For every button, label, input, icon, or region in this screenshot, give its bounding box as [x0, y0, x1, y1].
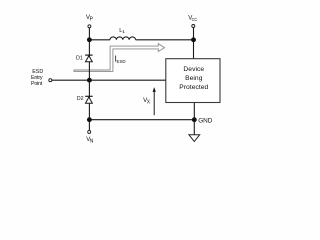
label V_X [143, 97, 151, 106]
label V_N [86, 136, 94, 145]
inductor L1 [110, 37, 136, 40]
wire V_P stub [88, 28, 90, 40]
terminal V_CC [192, 25, 195, 28]
svg-text:D1: D1 [76, 55, 83, 61]
svg-text:Device: Device [183, 66, 204, 73]
wire V_N stub [88, 120, 90, 131]
svg-text:Being: Being [185, 75, 203, 82]
wire bottom V_N segment [89, 119, 194, 121]
wire V_CC stub [193, 28, 195, 40]
junction node at V_P / top wire [87, 37, 92, 42]
box label Device Being Protected [179, 66, 208, 91]
diode D2 [85, 96, 92, 103]
label I_ESD [115, 54, 127, 64]
svg-text:N: N [90, 139, 94, 145]
terminal ESD entry point [49, 79, 52, 82]
svg-text:Protected: Protected [179, 84, 208, 91]
wire from top node into box top [193, 40, 195, 59]
svg-text:1: 1 [122, 29, 125, 34]
junction node at V_N / D2 [87, 117, 92, 122]
ESD current hollow arrow [74, 44, 165, 72]
wire left rail through D1 [88, 40, 90, 80]
label V_P [86, 14, 94, 23]
svg-text:Point: Point [31, 81, 43, 87]
label V_CC [188, 14, 197, 23]
wire left rail through D2 [88, 80, 90, 120]
wire top left segment [89, 39, 110, 41]
label ESD Entry Point [31, 69, 43, 87]
wire ESD entry horizontal [52, 79, 166, 81]
ground symbol [189, 135, 200, 142]
svg-text:Entry: Entry [31, 75, 43, 81]
junction node at ESD entry / diodes [87, 78, 92, 83]
terminal V_P [88, 25, 91, 28]
junction node at ground [192, 117, 197, 122]
diode D1 [85, 55, 92, 62]
svg-text:CC: CC [192, 17, 198, 23]
device box U1 [166, 59, 220, 103]
V_X sense arrow [153, 87, 156, 115]
wire from box bottom to ground node [193, 103, 195, 120]
terminal V_N [88, 130, 91, 133]
svg-text:D2: D2 [77, 96, 84, 102]
svg-text:GND: GND [198, 117, 213, 124]
svg-text:ESD: ESD [117, 59, 127, 64]
junction node at V_CC / top wire [191, 37, 196, 42]
wire top right segment [136, 39, 194, 41]
wire ground stub [193, 120, 195, 135]
value label L1 [119, 28, 125, 34]
